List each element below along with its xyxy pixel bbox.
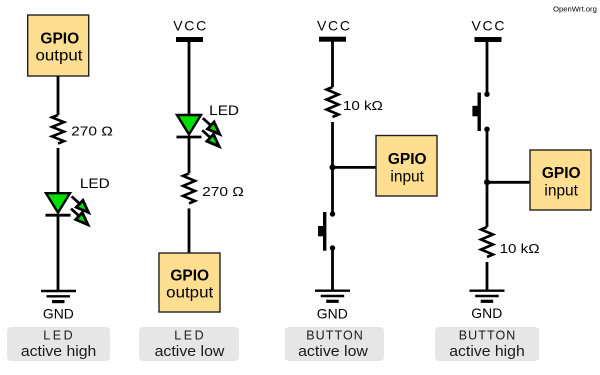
resistor 270 ohm (circuit 2) bbox=[183, 173, 195, 203]
resistor 270 ohm (circuit 1) bbox=[52, 115, 64, 144]
svg-text:LED: LED bbox=[209, 102, 239, 118]
VCC rail bar (circuit 3) bbox=[319, 37, 346, 42]
wire: VCC to button bbox=[486, 42, 489, 94]
ground symbol (circuit 3) bbox=[315, 291, 350, 302]
wire: resistor to ground bbox=[486, 262, 489, 290]
LED D2 cathode bar bbox=[177, 136, 202, 139]
svg-text:VCC: VCC bbox=[317, 18, 350, 34]
svg-text:GND: GND bbox=[317, 306, 348, 321]
svg-text:active high: active high bbox=[21, 343, 97, 360]
wire: resistor to junction bbox=[331, 122, 334, 214]
svg-text:VCC: VCC bbox=[472, 18, 505, 34]
push button S2 actuator bar bbox=[478, 93, 481, 132]
push button S2 bottom contact bbox=[484, 127, 489, 132]
wire: GPIO box to resistor bbox=[57, 76, 60, 115]
push button S2 (circuit 4) top contact bbox=[484, 92, 489, 97]
resistor 10k (circuit 3) bbox=[327, 87, 339, 117]
push button S2 nub bbox=[472, 106, 477, 117]
caption box: LED active low bbox=[139, 327, 239, 361]
svg-text:active low: active low bbox=[155, 343, 225, 360]
wire: resistor to GPIO box bbox=[188, 208, 191, 253]
wire: button to junction and resistor bbox=[486, 129, 489, 227]
svg-text:active high: active high bbox=[449, 343, 525, 360]
svg-text:LED: LED bbox=[80, 175, 110, 191]
svg-text:270 Ω: 270 Ω bbox=[202, 184, 244, 199]
svg-text:BUTTON: BUTTON bbox=[459, 328, 516, 342]
GPIO output box U1 bbox=[28, 15, 89, 76]
LED D1 light arrow 2 bbox=[71, 209, 88, 225]
junction node (circuit 4) bbox=[484, 179, 490, 185]
resistor 10k (circuit 4) bbox=[481, 227, 493, 257]
svg-text:GPIO: GPIO bbox=[542, 165, 581, 182]
svg-text:GPIO: GPIO bbox=[388, 151, 427, 168]
ground symbol (circuit 4) bbox=[470, 291, 505, 302]
svg-text:270 Ω: 270 Ω bbox=[71, 124, 113, 139]
wire: resistor to LED bbox=[57, 148, 60, 194]
wire: junction to GPIO input box bbox=[333, 166, 377, 169]
GPIO output box U2 bbox=[159, 253, 220, 312]
wire: VCC to resistor bbox=[331, 41, 334, 87]
push button S1 nub bbox=[318, 226, 323, 236]
svg-text:GPIO: GPIO bbox=[40, 31, 79, 48]
svg-text:VCC: VCC bbox=[173, 18, 206, 34]
push button S1 (circuit 3) top contact bbox=[330, 211, 335, 216]
LED D1 cathode bar bbox=[46, 214, 71, 217]
LED D1 light arrow 1 bbox=[72, 196, 89, 212]
svg-text:GPIO: GPIO bbox=[170, 268, 209, 285]
svg-text:10 kΩ: 10 kΩ bbox=[500, 241, 540, 256]
wire: button to ground bbox=[331, 248, 334, 290]
caption box: BUTTON active high bbox=[435, 327, 539, 361]
svg-text:input: input bbox=[390, 169, 424, 186]
push button S1 actuator bar bbox=[323, 212, 326, 251]
LED D1 (circuit 1) triangle bbox=[46, 193, 70, 212]
LED D2 light arrow 2 bbox=[202, 130, 219, 146]
VCC rail bar (circuit 2) bbox=[176, 37, 203, 42]
svg-text:10 kΩ: 10 kΩ bbox=[343, 98, 383, 113]
svg-text:GND: GND bbox=[43, 306, 74, 321]
svg-text:output: output bbox=[166, 285, 214, 302]
wire: LED to resistor bbox=[188, 137, 191, 173]
svg-text:LED: LED bbox=[174, 328, 203, 342]
svg-text:active low: active low bbox=[298, 343, 368, 360]
wire: LED to ground bbox=[57, 215, 60, 290]
push button S1 bottom contact bbox=[330, 245, 335, 250]
svg-text:BUTTON: BUTTON bbox=[306, 328, 363, 342]
GPIO input box U3 bbox=[376, 136, 437, 197]
caption box: BUTTON active low bbox=[285, 327, 384, 361]
wire: junction to GPIO input box bbox=[487, 181, 530, 184]
svg-text:GND: GND bbox=[471, 306, 502, 321]
svg-text:LED: LED bbox=[43, 328, 72, 342]
LED D2 (circuit 2) triangle bbox=[177, 115, 201, 134]
wire: VCC to LED bbox=[188, 42, 191, 116]
svg-text:OpenWrt.org: OpenWrt.org bbox=[553, 4, 597, 13]
VCC rail bar (circuit 4) bbox=[475, 37, 502, 42]
junction node (circuit 3) bbox=[330, 164, 336, 170]
svg-text:input: input bbox=[544, 182, 578, 199]
LED D2 light arrow 1 bbox=[203, 118, 220, 134]
ground symbol (circuit 1) bbox=[41, 291, 76, 302]
caption box: LED active high bbox=[7, 327, 110, 361]
GPIO input box U4 bbox=[530, 150, 591, 210]
svg-text:output: output bbox=[36, 48, 84, 65]
